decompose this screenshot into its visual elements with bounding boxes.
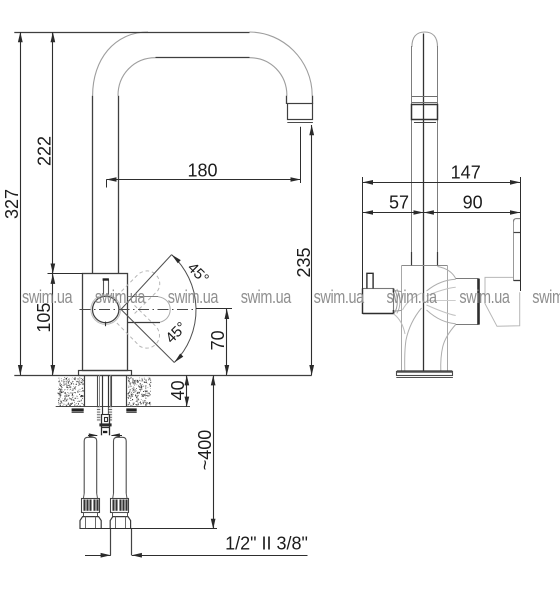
svg-text:90: 90 [463, 193, 483, 213]
svg-text:~400: ~400 [195, 430, 215, 471]
svg-text:180: 180 [187, 161, 217, 181]
svg-text:swim.ua: swim.ua [241, 286, 292, 307]
svg-text:57: 57 [389, 193, 409, 213]
svg-text:swim.ua: swim.ua [387, 286, 438, 307]
svg-text:swim.ua: swim.ua [95, 286, 146, 307]
svg-text:147: 147 [451, 162, 481, 182]
svg-text:swim.ua: swim.ua [22, 286, 73, 307]
svg-text:327: 327 [2, 189, 22, 219]
svg-text:222: 222 [35, 136, 55, 166]
svg-text:swim.ua: swim.ua [314, 286, 365, 307]
svg-text:swim.ua: swim.ua [532, 286, 560, 307]
svg-text:40: 40 [168, 380, 188, 400]
svg-text:swim.ua: swim.ua [459, 286, 510, 307]
svg-text:235: 235 [294, 247, 314, 277]
svg-text:swim.ua: swim.ua [168, 286, 219, 307]
svg-text:70: 70 [208, 330, 228, 350]
svg-text:1/2" II 3/8": 1/2" II 3/8" [225, 534, 308, 554]
